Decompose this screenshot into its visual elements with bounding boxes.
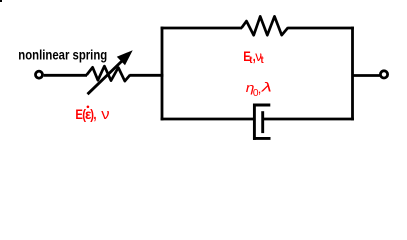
wire: top branch left segment (161, 27, 242, 30)
wire: box right vertical (351, 27, 354, 121)
piston plate (261, 111, 264, 133)
svg-text:nonlinear spring: nonlinear spring (18, 48, 107, 63)
wire: piston rod to box right (263, 118, 354, 121)
terminal (left, open circle) (36, 71, 43, 78)
svg-text:ν: ν (101, 107, 110, 123)
arrow across nonlinear spring (variable symbol) (88, 50, 133, 94)
wire: bottom branch left segment (161, 118, 254, 121)
artifact dot top-left (0, 0, 2, 2)
wire: box right to right terminal (353, 74, 380, 77)
label eta0,lambda (246, 80, 272, 99)
dashpot (cup + piston) (253, 104, 271, 140)
nonlinear spring S1 (zigzag) (87, 66, 130, 81)
svg-text:λ: λ (261, 80, 272, 95)
wire: left terminal to nonlinear spring (44, 74, 87, 77)
svg-text:,: , (258, 81, 262, 96)
cup left wall (253, 104, 256, 140)
wire: box left vertical (161, 27, 164, 121)
cup bottom wall (253, 137, 271, 140)
label Et,nu-t (243, 49, 264, 66)
label E(epsilon-dot),nu (75, 106, 109, 123)
terminal (right, open circle) (380, 71, 387, 78)
wire: nonlinear spring to box left node (130, 74, 164, 77)
wire: top branch right segment (288, 27, 354, 30)
cup top wall (253, 104, 270, 107)
spring Et (zigzag, top branch) (242, 16, 289, 35)
svg-text:t: t (261, 55, 265, 67)
svg-text:,: , (93, 107, 96, 122)
